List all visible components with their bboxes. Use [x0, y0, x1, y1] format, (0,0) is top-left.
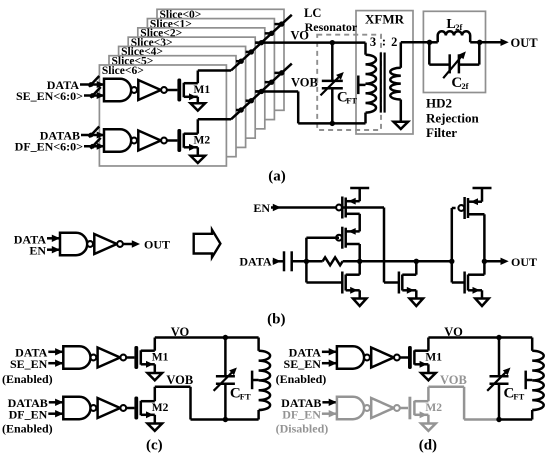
svg-text:Rejection: Rejection [426, 110, 479, 125]
svg-text:FT: FT [240, 391, 251, 401]
svg-text:VOB: VOB [440, 373, 467, 387]
svg-text:M1: M1 [425, 351, 442, 363]
svg-text:VOB: VOB [166, 373, 193, 387]
svg-text:HD2: HD2 [426, 96, 452, 111]
svg-text:3: 3 [370, 35, 376, 49]
svg-text:XFMR: XFMR [365, 11, 405, 26]
svg-text::: : [382, 35, 386, 49]
svg-text:LC: LC [304, 6, 321, 20]
svg-text:SE_EN<6:0>: SE_EN<6:0> [16, 89, 83, 103]
svg-text:M2: M2 [425, 402, 442, 414]
svg-text:OUT: OUT [511, 255, 537, 269]
svg-text:Slice<6>: Slice<6> [102, 65, 144, 77]
svg-text:Filter: Filter [426, 125, 457, 140]
svg-text:VOB: VOB [291, 76, 318, 90]
svg-text:EN: EN [253, 201, 270, 215]
svg-text:DF_EN: DF_EN [282, 408, 321, 422]
svg-text:(Enabled): (Enabled) [2, 421, 53, 435]
svg-text:DF_EN: DF_EN [9, 408, 48, 422]
svg-text:2: 2 [391, 35, 397, 49]
svg-text:FT: FT [513, 391, 524, 401]
svg-text:Resonator: Resonator [305, 20, 358, 34]
svg-text:(d): (d) [419, 438, 437, 454]
svg-text:M1: M1 [194, 84, 211, 96]
svg-text:2f: 2f [455, 22, 462, 32]
svg-text:(Disabled): (Disabled) [276, 421, 329, 435]
svg-text:SE_EN: SE_EN [10, 357, 48, 371]
svg-text:(Enabled): (Enabled) [2, 372, 53, 386]
svg-text:M1: M1 [152, 351, 169, 363]
svg-text:(b): (b) [267, 312, 285, 328]
svg-text:M2: M2 [194, 134, 211, 146]
svg-text:(a): (a) [268, 169, 286, 185]
svg-text:DF_EN<6:0>: DF_EN<6:0> [15, 140, 84, 154]
svg-text:SE_EN: SE_EN [284, 357, 322, 371]
svg-text:(Enabled): (Enabled) [276, 372, 327, 386]
svg-text:M2: M2 [152, 402, 169, 414]
svg-text:(c): (c) [146, 438, 163, 454]
svg-text:FT: FT [346, 95, 357, 105]
svg-text:2f: 2f [461, 81, 468, 91]
svg-text:EN: EN [29, 243, 46, 257]
svg-text:OUT: OUT [511, 36, 539, 50]
svg-text:OUT: OUT [144, 237, 170, 251]
svg-text:DATA: DATA [239, 255, 272, 269]
